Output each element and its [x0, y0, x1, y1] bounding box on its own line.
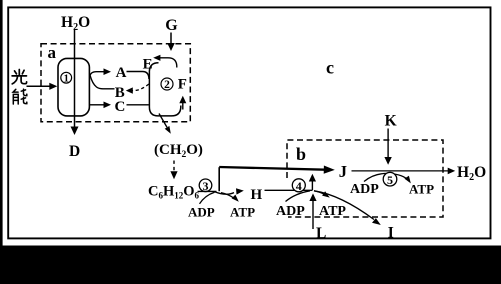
arrow 1 to A — [90, 72, 105, 76]
wire C to organelle 2 — [127, 104, 149, 106]
svg-text:C: C — [115, 99, 126, 115]
svg-text:J: J — [339, 162, 347, 181]
svg-text:H: H — [251, 187, 263, 203]
organelle 2 outline — [149, 63, 180, 116]
ADP arc 3 — [200, 192, 215, 204]
svg-text:ADP: ADP — [350, 182, 379, 197]
inner frame — [8, 7, 490, 238]
svg-text:4: 4 — [296, 179, 302, 193]
svg-text:ATP: ATP — [409, 182, 434, 197]
bottom black bar — [0, 246, 501, 284]
light energy text 光 — [12, 70, 27, 84]
dashed box b — [287, 140, 443, 217]
arrow 2 to CH2O — [159, 114, 167, 128]
thick arrow to J — [219, 167, 325, 170]
circled 2 — [161, 78, 173, 90]
svg-text:2: 2 — [164, 79, 170, 91]
svg-text:c: c — [326, 58, 334, 78]
arrow K down — [387, 129, 389, 159]
ADP arc 4 — [286, 191, 311, 202]
svg-text:(CH2O): (CH2O) — [154, 142, 203, 160]
wire J to H2O — [352, 170, 449, 172]
arrow 1 to C — [90, 104, 105, 106]
svg-text:K: K — [385, 113, 397, 130]
dashed box a — [41, 44, 190, 122]
wire loop 1-B — [90, 75, 115, 89]
arrow F up — [182, 103, 184, 110]
svg-text:5: 5 — [387, 173, 393, 187]
circled 1 — [61, 72, 72, 83]
circled 5 — [383, 172, 397, 186]
light energy text 能 — [13, 89, 27, 104]
arrow light to 1 — [27, 85, 52, 87]
arc arrow into E — [160, 58, 177, 68]
wire H2O down through 1 — [74, 30, 76, 127]
arrow L up — [312, 199, 314, 229]
wire A to organelle 2 — [127, 72, 149, 80]
dashed arrow 2 to B — [133, 84, 149, 91]
arrow junction up to J wire — [311, 180, 313, 191]
svg-text:ATP: ATP — [319, 204, 346, 219]
arrow G down — [170, 33, 172, 45]
svg-text:C6H12O6: C6H12O6 — [148, 184, 200, 201]
organelle 1 rounded rect — [58, 58, 89, 116]
circled 4 — [292, 179, 305, 192]
left black strip — [0, 0, 3, 284]
svg-text:G: G — [165, 17, 178, 34]
ADP arc 5 — [364, 173, 408, 181]
circled 3 — [199, 179, 212, 192]
svg-text:ATP: ATP — [230, 205, 255, 220]
reaction line 3 — [198, 190, 217, 192]
svg-text:D: D — [69, 143, 80, 160]
svg-text:A: A — [116, 65, 127, 81]
svg-text:I: I — [388, 225, 394, 242]
svg-text:ADP: ADP — [276, 204, 305, 219]
wire H to junction 4 — [265, 189, 313, 191]
svg-text:a: a — [48, 43, 57, 62]
svg-text:F: F — [178, 76, 187, 92]
curve to I — [314, 191, 374, 220]
dashed arrow down to glucose — [173, 161, 175, 173]
svg-text:b: b — [296, 144, 306, 164]
svg-text:E: E — [143, 56, 153, 72]
svg-text:1: 1 — [64, 74, 69, 85]
wire up from 3 line — [218, 167, 220, 191]
svg-text:ADP: ADP — [188, 205, 215, 220]
svg-text:L: L — [316, 225, 326, 242]
